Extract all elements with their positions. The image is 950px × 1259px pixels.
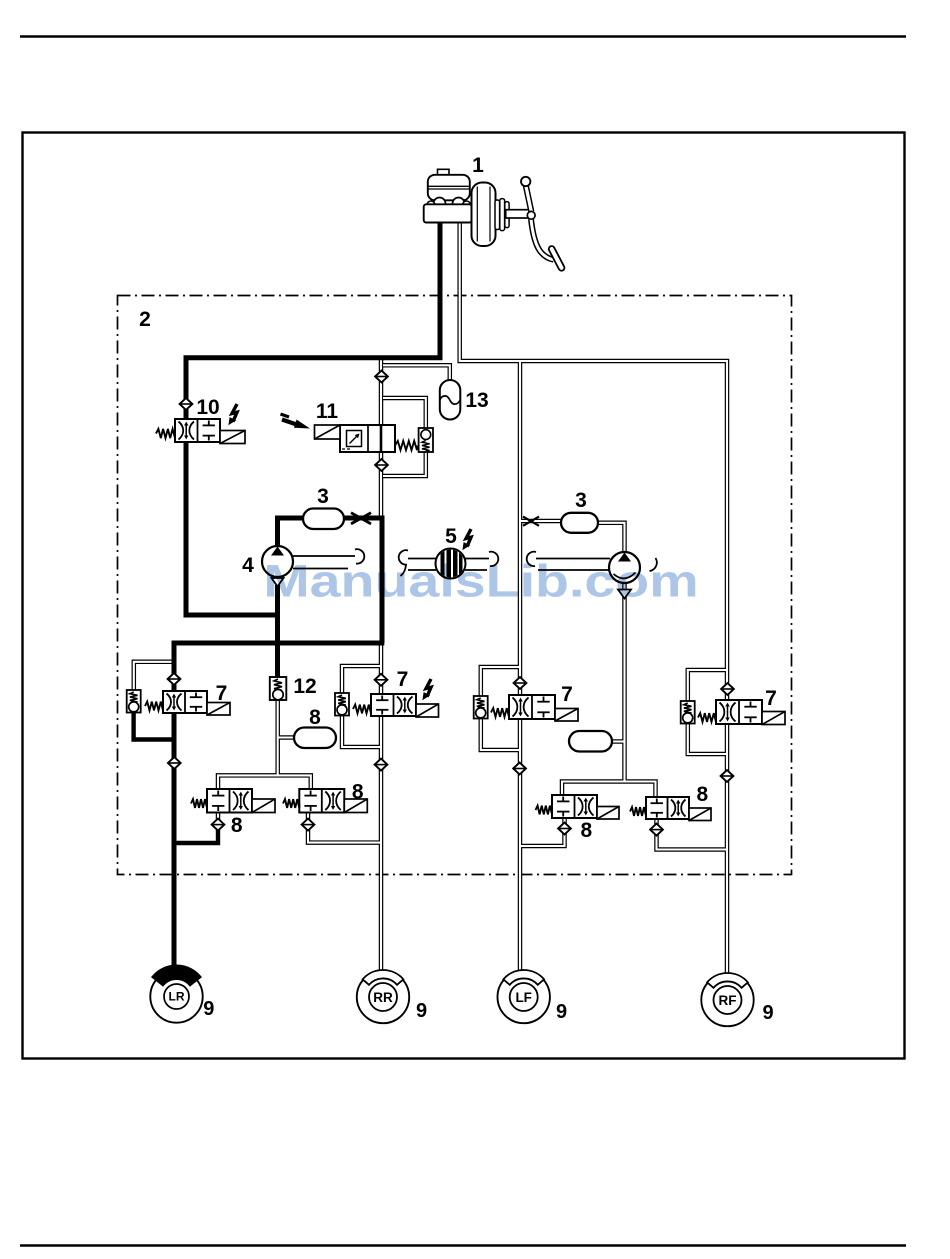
check valve below valve 11: [375, 459, 388, 471]
electric motor 5: [436, 548, 466, 579]
damper chamber 3 (front): [561, 513, 598, 533]
pump 4 suction check: [272, 578, 284, 587]
restrictor on front damper line: [523, 517, 539, 526]
damper chamber 8 (front): [569, 731, 612, 752]
valve 11 spring: [395, 441, 417, 450]
pump 4 (rear circuit): [262, 546, 293, 577]
wire: valve 8a outlet stub: [216, 810, 221, 824]
wire: valve 11 bypass bottom: [383, 451, 426, 476]
hydraulic unit boundary box 2 (dash-dot): [118, 296, 792, 875]
wire: pump 4 suction line (thick): [275, 585, 280, 645]
RR valve bypass check: [335, 693, 349, 716]
pipe bores (white cores of the double-line pipes): [134, 222, 727, 980]
wire: secondary circuit from master cylinder to front-axle header and RF branch: [460, 222, 727, 980]
pump drive shaft with couplings: [293, 549, 657, 576]
valve 7 RR lightning: [422, 679, 431, 700]
svg-text:4: 4: [242, 554, 254, 577]
svg-text:1: 1: [472, 154, 484, 177]
check valve 12: [270, 677, 287, 700]
svg-text:9: 9: [556, 1001, 567, 1023]
check valve below valve 8a: [212, 819, 225, 831]
svg-text:3: 3: [575, 489, 587, 512]
valve 11 bypass check valve: [419, 428, 433, 452]
svg-text:RF: RF: [719, 993, 737, 1008]
svg-text:8: 8: [309, 706, 321, 729]
check valve above valve 7 LF: [514, 677, 527, 689]
svg-text:11: 11: [316, 400, 339, 423]
check valve below valve 7 RF: [721, 770, 734, 782]
brake pedal: [521, 177, 562, 268]
valve 8c spring: [536, 806, 553, 815]
valve 7 LR solenoid: [207, 703, 230, 716]
damper chamber 8 (rear): [294, 728, 336, 749]
svg-text:8: 8: [580, 819, 592, 842]
wheel LF: [498, 970, 550, 1023]
pump (front circuit): [609, 552, 640, 583]
svg-text:9: 9: [416, 1000, 427, 1022]
wire: front damper to pump inlet: [598, 523, 625, 553]
wire: LF valve bypass top: [481, 667, 519, 696]
wire: valve 8c return to LF branch: [521, 818, 565, 846]
wire: valve 8d return to RF branch: [657, 819, 727, 850]
solenoid valve 8d: [646, 797, 689, 819]
wheel RR: [357, 970, 409, 1023]
check valve below valve 7 RR: [375, 759, 388, 771]
solenoid valve 7 (RR): [371, 694, 416, 716]
svg-text:2: 2: [139, 308, 151, 331]
check valve below header on valve 11 line: [375, 371, 388, 383]
check valve below valve 8c: [558, 823, 571, 835]
wire: rear distribution header (thick): [172, 641, 385, 646]
valve 8c solenoid: [597, 807, 619, 820]
svg-text:10: 10: [196, 396, 219, 419]
check valve on LR supply: [180, 398, 193, 410]
master cylinder body 1: [424, 204, 472, 222]
valve 7 RR spring: [353, 705, 371, 714]
wire: valve 8a/8b supply header: [218, 775, 311, 790]
valve 8d spring: [630, 807, 646, 816]
valve 10 spring: [156, 429, 175, 438]
svg-text:RR: RR: [373, 990, 393, 1005]
check valve below valve 7 LR: [168, 757, 181, 769]
solenoid valve 7 (LF): [509, 695, 555, 719]
front pump inner arc: [614, 573, 636, 579]
wire: valve 8a return to LR branch (thick): [172, 828, 218, 843]
wire: front damper line from LF branch: [521, 519, 563, 524]
svg-text:12: 12: [293, 675, 316, 698]
wire: RR valve bypass top: [342, 666, 380, 693]
svg-text:7: 7: [765, 687, 777, 710]
wire: RF valve bypass top: [688, 670, 726, 701]
wire: primary circuit master cylinder to rear supply header and LR feed (thick): [186, 222, 440, 615]
check valve below valve 7 LF: [513, 763, 526, 775]
wire: RR branch from rear header down to wheel RR: [379, 643, 384, 977]
pilot valve 11 body: [340, 425, 395, 452]
wire: branch to accumulator 13: [383, 365, 450, 381]
svg-text:7: 7: [397, 668, 409, 691]
wire: pump 4 outlet over damper 3 to distribution point (thick): [278, 518, 383, 643]
solenoid valve 8b: [299, 789, 344, 813]
valve 7 RF spring: [698, 713, 716, 722]
check valve below valve 8b: [302, 819, 315, 831]
check valve above valve 7 RR: [375, 674, 388, 686]
valve 8b spring: [283, 799, 299, 808]
wheel RF: [701, 973, 753, 1026]
wire: valve 8c/8d supply header: [562, 782, 656, 799]
front pump suction check: [618, 590, 631, 599]
valve 11 solenoid: [315, 425, 341, 439]
svg-text:5: 5: [445, 525, 457, 548]
valve 7 LF solenoid: [555, 709, 578, 722]
check valve above valve 7 LR: [168, 673, 181, 685]
LR outlet valve bypass check: [127, 690, 141, 713]
solenoid valve 8c: [552, 795, 597, 818]
check valve above valve 7 RF: [721, 683, 734, 695]
check valve below valve 8d: [650, 824, 663, 836]
svg-text:LR: LR: [169, 990, 185, 1004]
booster rod rings: [495, 199, 509, 231]
brake booster: [472, 183, 496, 247]
wheel LR: [150, 965, 202, 1023]
accumulator 13: [440, 380, 461, 420]
svg-text:ManualsLib.com: ManualsLib.com: [263, 556, 698, 607]
wire: front pump outlet down to valve 8c/8d header: [622, 582, 627, 782]
valve 7 RF solenoid: [762, 712, 785, 725]
motor 5 lightning: [462, 529, 471, 550]
svg-text:9: 9: [203, 998, 214, 1020]
damper chamber 3 (rear): [303, 509, 344, 530]
LF valve bypass check: [474, 696, 488, 719]
wire: check valve 12 outlet down to valve 8a/8b header: [275, 699, 280, 776]
svg-text:8: 8: [352, 781, 364, 804]
valve 7 RR solenoid: [416, 704, 439, 717]
valve 8a spring: [191, 799, 207, 808]
outer frame: [23, 133, 905, 1059]
wire: RF valve bypass bottom: [688, 722, 726, 754]
wire: valve 8b return to RR branch: [308, 812, 380, 843]
svg-text:LF: LF: [515, 990, 532, 1005]
valve 10 solenoid: [220, 431, 245, 444]
RF valve bypass check: [681, 701, 695, 724]
top rule: [20, 35, 906, 38]
wire: link to damper chamber 8 (front): [611, 739, 625, 744]
solenoid valve 8a: [207, 789, 252, 813]
svg-text:3: 3: [317, 485, 329, 508]
wire: LR branch down to wheel LR (thick): [172, 641, 177, 972]
solenoid valve 7 (LR): [163, 691, 207, 713]
pushrod: [506, 210, 533, 218]
restrictor on rear damper line: [351, 513, 371, 524]
wire: LF branch down to wheel LF: [518, 361, 523, 977]
valve 8a solenoid: [252, 799, 275, 813]
wire: RR valve bypass bottom: [342, 715, 380, 747]
solenoid valve 10: [175, 419, 220, 442]
valve 8b solenoid: [344, 799, 367, 813]
wire: feed to check valve 12 (thick): [275, 641, 280, 678]
svg-text:7: 7: [561, 683, 573, 706]
master cylinder reservoir: [428, 169, 470, 200]
svg-text:7: 7: [216, 682, 228, 705]
valve 7 LR spring: [145, 702, 163, 711]
svg-text:13: 13: [465, 389, 488, 412]
svg-text:8: 8: [231, 814, 243, 837]
svg-text:9: 9: [762, 1002, 773, 1024]
valve 8d solenoid: [689, 808, 711, 821]
valve 10 lightning: [228, 404, 237, 425]
wire: main valve 11 line from supply header: [379, 359, 384, 518]
wire: LF valve bypass bottom: [481, 717, 519, 750]
wire: valve 11 bypass top: [383, 398, 426, 429]
valve 11 callout arrow: [281, 414, 311, 429]
wire: link to damper chamber 8 (rear): [278, 735, 295, 740]
wire: LR outlet valve bypass bottom (thick): [134, 711, 177, 740]
wire: LR outlet valve bypass top: [134, 662, 173, 690]
bottom rule: [20, 1244, 906, 1247]
valve 7 LF spring: [491, 708, 509, 717]
reservoir outlet bumps: [427, 198, 471, 210]
svg-text:8: 8: [697, 783, 709, 806]
solenoid valve 7 (RF): [716, 700, 762, 724]
